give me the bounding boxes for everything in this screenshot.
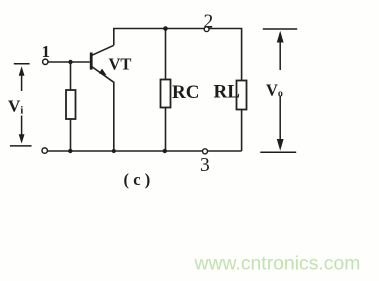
wire: base wire from input terminal 1 to transistor base xyxy=(48,61,90,63)
transistor VT emitter arrowhead xyxy=(99,69,107,76)
wire: bottom rail (node 3 rail) xyxy=(47,150,241,152)
Vo up-arrow shaft xyxy=(279,33,281,70)
wire: input branch vertical down from base wire to resistor xyxy=(70,62,72,91)
terminal: input terminal 1 (open circle, top left) xyxy=(43,59,48,64)
Vi up-arrow head xyxy=(19,66,25,76)
junction dot: bottom rail / RC branch xyxy=(163,149,167,153)
svg-text:www.cntronics.com: www.cntronics.com xyxy=(194,253,361,275)
junction dot: bottom rail / input resistor branch xyxy=(68,149,72,153)
junction dot: top rail / RC branch xyxy=(163,26,168,31)
svg-text:Vo: Vo xyxy=(266,81,283,100)
svg-text:RL: RL xyxy=(214,82,240,103)
svg-text:RC: RC xyxy=(172,82,199,103)
Vo top T-bar xyxy=(263,28,297,30)
Vo bottom T-bar xyxy=(260,151,296,153)
Vi measurement arrows (left) xyxy=(10,64,32,146)
terminal: bottom-left terminal (open circle) xyxy=(42,148,47,153)
junction dot: base wire / input resistor xyxy=(68,60,72,64)
resistor RL body xyxy=(237,81,247,110)
Vo down-arrow shaft xyxy=(279,96,281,143)
svg-text:VT: VT xyxy=(109,55,132,74)
wire: from input resistor bottom to bottom rail xyxy=(70,119,72,151)
junction dot: bottom rail / emitter xyxy=(112,149,116,153)
Vo up-arrow head xyxy=(277,31,284,43)
Vi down-arrow head xyxy=(19,134,25,143)
Vo measurement arrows (right) xyxy=(260,29,297,152)
wire: top rail (node 2 rail) from collector corner to RL corner xyxy=(114,29,242,81)
Vi bottom T-bar xyxy=(10,145,32,147)
Vi up-arrow shaft xyxy=(21,70,23,91)
resistor RC body xyxy=(161,80,171,108)
Vi top T-bar xyxy=(14,63,30,65)
node 2: open circle on top rail xyxy=(204,27,209,32)
transistor VT collector lead xyxy=(92,45,114,55)
svg-text:1: 1 xyxy=(42,42,51,61)
wire: RC branch bottom (RC resistor to bottom rail) xyxy=(165,108,167,152)
Vi down-arrow shaft xyxy=(21,116,23,139)
node 3: open circle on bottom rail xyxy=(203,149,208,154)
Vo down-arrow head xyxy=(277,139,284,151)
wire: RL branch bottom (RL resistor to bottom rail corner) xyxy=(241,110,243,152)
transistor VT emitter lead xyxy=(92,67,114,151)
svg-text:3: 3 xyxy=(200,155,210,176)
transistor VT base bar xyxy=(90,53,93,70)
svg-text:(c): (c) xyxy=(124,170,155,189)
wire: RC branch top (rail to RC resistor) xyxy=(165,29,167,81)
svg-text:2: 2 xyxy=(204,11,214,32)
svg-text:Vi: Vi xyxy=(8,96,23,116)
transistor Q VT xyxy=(91,45,114,151)
resistor (input shunt, unlabeled) xyxy=(66,90,76,119)
